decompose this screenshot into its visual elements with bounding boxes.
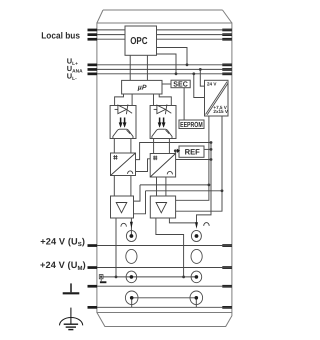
svg-text:Local bus: Local bus — [41, 30, 80, 40]
svg-text:24 V: 24 V — [207, 82, 217, 87]
svg-text:EEPROM: EEPROM — [180, 120, 203, 129]
svg-text:SEC: SEC — [173, 80, 188, 89]
svg-text:OPC: OPC — [130, 36, 147, 47]
svg-text:µP: µP — [137, 84, 147, 91]
svg-text:REF: REF — [185, 147, 200, 156]
svg-text:2x15 V: 2x15 V — [213, 109, 228, 114]
